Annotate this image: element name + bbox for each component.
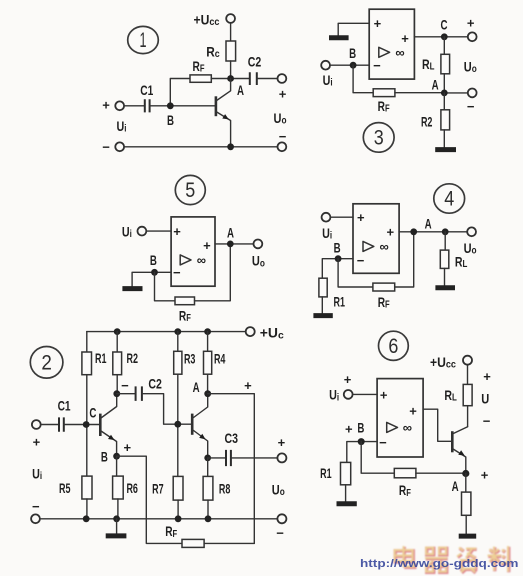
svg-text:+: + — [401, 31, 409, 46]
wire A to RL — [444, 232, 446, 250]
svg-text:B: B — [334, 239, 341, 255]
circuit badge 2 — [30, 347, 63, 379]
svg-text:∞: ∞ — [395, 45, 404, 60]
svg-text:RF: RF — [378, 294, 390, 311]
svg-text:R5: R5 — [59, 480, 71, 496]
terminal output top — [278, 74, 287, 83]
resistor R7 — [152, 476, 183, 500]
resistor R1 — [82, 350, 107, 375]
transistor Q2 collector — [192, 394, 208, 419]
wire Ucc to RL — [467, 365, 469, 385]
wire RF to node A — [416, 472, 466, 474]
svg-text:C2: C2 — [248, 54, 262, 70]
node B — [349, 45, 356, 68]
junction rail-R7 — [175, 515, 182, 522]
wire R5 to rail — [86, 499, 88, 519]
svg-text:R8: R8 — [219, 480, 231, 496]
wire rail to R3 — [177, 332, 179, 352]
svg-text:+: + — [409, 404, 417, 419]
node A — [432, 77, 448, 97]
transistor Q2 base bar — [191, 414, 194, 435]
wire C2 to base of Q2 — [142, 394, 192, 425]
svg-text:+Uc: +Uc — [260, 325, 284, 342]
wire A to R2 — [465, 474, 467, 493]
svg-text:B: B — [150, 252, 157, 268]
wire RF to output branch — [204, 542, 254, 544]
resistor RF — [373, 89, 395, 115]
svg-text:R1: R1 — [334, 294, 346, 310]
svg-text:A: A — [432, 77, 439, 93]
wire inverting input to B to ground — [132, 272, 171, 286]
svg-text:R4: R4 — [214, 351, 226, 367]
svg-text:+: + — [481, 468, 489, 483]
terminal input top — [32, 420, 41, 429]
wire output to terminal — [399, 231, 467, 233]
resistor R8 — [203, 476, 230, 500]
wire A to R2 — [443, 93, 445, 110]
resistor R2 — [113, 350, 138, 375]
ground (below R1) — [337, 501, 357, 506]
svg-text:+: + — [124, 440, 132, 455]
node B — [357, 419, 364, 445]
capacitor C1 — [140, 82, 153, 112]
wire B down to RF — [353, 65, 373, 93]
transistor Q1 base bar — [215, 96, 218, 116]
wire output to base of Q — [423, 409, 451, 441]
watermark underline — [393, 572, 508, 574]
wire junction to C2 — [117, 393, 136, 395]
node A — [227, 225, 234, 248]
wire bottom rail — [40, 518, 278, 520]
svg-text:C1: C1 — [140, 82, 153, 98]
wire Ui to + input — [353, 393, 378, 395]
svg-text:+Ucc: +Ucc — [430, 354, 456, 371]
capacitor C2 — [136, 376, 162, 401]
wire node A to C2 — [231, 78, 250, 80]
terminal input bottom — [115, 142, 124, 151]
svg-text:3: 3 — [374, 127, 384, 150]
node B — [334, 239, 342, 262]
resistor RL — [444, 384, 472, 405]
wire node A right and down to RF — [208, 394, 255, 544]
node B — [167, 102, 174, 127]
svg-text:+Ucc: +Ucc — [194, 12, 220, 29]
resistor R4 — [204, 351, 226, 375]
wire B down to RF — [155, 272, 176, 301]
op-amp U4 triangle — [363, 241, 374, 251]
ground (below R2) — [459, 534, 477, 539]
node A — [425, 215, 449, 235]
junction rail-R6 — [113, 515, 120, 522]
wire C1 to base of Q1 — [64, 424, 101, 426]
node A — [227, 75, 244, 98]
svg-text:−: − — [357, 253, 365, 268]
wire +Uc top rail — [87, 331, 246, 333]
wire C to RL — [443, 37, 445, 55]
transistor Q1 collector — [216, 79, 231, 102]
terminal Ui — [322, 213, 331, 222]
svg-text:+: + — [374, 16, 382, 31]
svg-text:−: − — [102, 140, 110, 155]
svg-text:−: − — [379, 435, 387, 450]
svg-text:+: + — [357, 210, 365, 225]
svg-text:−: − — [373, 58, 381, 73]
ground (below R1) — [313, 313, 332, 318]
svg-text:R7: R7 — [152, 480, 164, 496]
svg-text:C1: C1 — [58, 398, 71, 414]
resistor R5 — [59, 476, 92, 499]
transistor Q1 collector — [100, 394, 116, 419]
wire Ui to + input — [146, 230, 171, 232]
transistor Q2 emitter — [192, 430, 208, 458]
svg-text:+: + — [467, 15, 475, 30]
svg-text:+: + — [173, 224, 181, 239]
transistor Q1 emitter — [216, 112, 231, 147]
svg-text:RL: RL — [422, 56, 435, 73]
wire rail to R4 — [207, 332, 209, 352]
terminal +Ucc — [226, 14, 235, 23]
transistor Q base bar — [451, 431, 454, 452]
svg-text:RF: RF — [179, 308, 191, 325]
terminal +Uc — [246, 327, 255, 336]
wire emitter node to R8 — [207, 458, 209, 477]
svg-text:A: A — [193, 379, 200, 395]
svg-text:Ui: Ui — [117, 118, 127, 135]
wire R1 to ground — [321, 297, 323, 313]
capacitor C1 — [58, 398, 71, 432]
svg-text:B: B — [357, 419, 364, 435]
svg-text:+: + — [344, 372, 352, 387]
ground (circuit 3 input) — [329, 35, 349, 40]
terminal Ui — [344, 390, 353, 399]
svg-text:−: − — [276, 526, 284, 541]
wire R3 down through base junction to R7 — [177, 374, 179, 476]
terminal Ui — [321, 61, 330, 70]
svg-text:∞: ∞ — [403, 420, 412, 435]
svg-text:+: + — [244, 378, 252, 393]
svg-text:RF: RF — [193, 58, 205, 75]
wire node A to terminal - — [444, 92, 468, 94]
junction rail-R3 — [174, 328, 181, 335]
svg-text:−: − — [279, 129, 287, 144]
svg-text:http://www.go-gddq.com: http://www.go-gddq.com — [360, 558, 519, 570]
wire Ucc terminal to Rc — [230, 23, 232, 41]
junction rail-R8 — [205, 515, 212, 522]
svg-text:+: + — [345, 422, 353, 437]
svg-text:C2: C2 — [148, 376, 162, 392]
svg-text:+: + — [483, 369, 491, 384]
resistor Rc — [206, 41, 235, 61]
svg-text:Ui: Ui — [322, 225, 332, 242]
svg-text:+: + — [279, 86, 287, 101]
wire B down to R6 — [116, 456, 118, 476]
svg-text:−: − — [467, 99, 475, 114]
wire Ui to + input — [330, 216, 353, 218]
terminal Ui — [138, 227, 147, 236]
junction rail-R5 — [83, 515, 90, 522]
wire rail to R2 — [116, 332, 118, 352]
terminal +Ucc — [463, 356, 472, 365]
capacitor C2 — [248, 54, 262, 86]
svg-text:6: 6 — [388, 335, 398, 358]
svg-text:B: B — [349, 45, 356, 61]
svg-text:−: − — [173, 265, 181, 280]
wire R4 down to node A — [207, 374, 209, 394]
wire RF to node A — [211, 78, 230, 80]
wire input to C1 — [124, 105, 145, 107]
svg-text:R1: R1 — [95, 350, 107, 366]
svg-text:C: C — [441, 17, 448, 33]
svg-text:Ui: Ui — [329, 387, 339, 404]
wire rail to ground — [116, 519, 118, 534]
svg-text:R1: R1 — [320, 465, 332, 481]
svg-text:+: + — [102, 97, 110, 112]
svg-text:R2: R2 — [421, 113, 433, 129]
svg-text:+: + — [278, 435, 286, 450]
resistor RL — [422, 54, 450, 74]
resistor R2 (unlabeled) — [462, 492, 471, 515]
wire R2 down to collector junction — [116, 375, 118, 394]
terminal output + — [468, 32, 477, 41]
junction output-RF — [410, 228, 417, 235]
svg-text:Uo: Uo — [464, 240, 477, 257]
svg-text:R2: R2 — [127, 350, 139, 366]
wire RF up to node A — [195, 244, 231, 301]
svg-text:+: + — [387, 225, 395, 240]
svg-text:RF: RF — [165, 523, 177, 540]
wire B down to RF — [361, 442, 394, 474]
svg-text:Ui: Ui — [323, 72, 333, 89]
wire RF up to output node — [395, 232, 414, 287]
circuit badge 5 — [175, 175, 205, 204]
svg-text:B: B — [167, 112, 174, 128]
node C — [441, 17, 448, 40]
svg-text:RL: RL — [444, 387, 457, 404]
resistor R6 — [113, 476, 138, 499]
junction rail-R4 — [204, 328, 211, 335]
op-amp U5 triangle — [180, 255, 191, 265]
wire C2 to output terminal — [257, 78, 278, 80]
svg-text:RF: RF — [378, 98, 390, 115]
wire inverting input to R1 — [322, 259, 353, 279]
ground (below RL) — [435, 285, 455, 290]
junction emitter-rail — [227, 143, 234, 150]
svg-text:+: + — [203, 238, 211, 253]
transistor Q1 emitter — [100, 431, 116, 457]
op-amp U3 triangle — [379, 47, 390, 57]
svg-text:2: 2 — [41, 352, 52, 375]
wire bottom rail — [124, 146, 277, 148]
wire C3 to output terminal — [231, 457, 278, 459]
resistor RF (feedback) — [165, 523, 204, 547]
svg-text:∞: ∞ — [197, 253, 206, 268]
op-amp U5 box — [171, 217, 215, 286]
svg-text:Rc: Rc — [206, 44, 220, 61]
wire R1 to ground — [345, 485, 347, 502]
svg-text:+: + — [33, 434, 41, 449]
ground (below R2) — [435, 147, 456, 152]
svg-text:A: A — [237, 82, 244, 98]
svg-text:−: − — [121, 378, 129, 393]
resistor R3 — [174, 351, 196, 375]
resistor R2 — [421, 110, 450, 130]
svg-text:Uo: Uo — [464, 58, 477, 75]
svg-text:A: A — [227, 225, 234, 241]
wire Rc to node A — [230, 61, 232, 79]
svg-text:R3: R3 — [184, 351, 196, 367]
svg-text:A: A — [425, 215, 432, 231]
wire node B up and to RF — [170, 79, 190, 106]
ground (circuit 5) — [122, 286, 142, 291]
circuit badge 4 — [434, 184, 465, 213]
svg-text:4: 4 — [444, 188, 454, 211]
wire B down to RF — [338, 259, 373, 287]
op-amp U4 box — [353, 204, 399, 273]
wire B right and down to RF — [117, 456, 182, 543]
node B — [150, 252, 158, 276]
resistor RF (R-F feedback) — [190, 58, 211, 82]
circuit badge 3 — [363, 123, 394, 153]
wire output to terminal — [215, 243, 254, 245]
wire RL to ground — [444, 268, 446, 285]
svg-text:R6: R6 — [126, 480, 138, 496]
resistor RF — [175, 297, 195, 324]
resistor R1 — [319, 278, 345, 309]
terminal input bottom — [31, 514, 40, 523]
wire Ui to inverting input — [330, 64, 369, 66]
node C — [83, 404, 97, 428]
terminal output - — [468, 89, 477, 98]
svg-text:A: A — [452, 478, 459, 494]
op-amp U6 box — [377, 379, 423, 457]
svg-text:Ui: Ui — [32, 466, 42, 483]
resistor RF — [373, 283, 395, 311]
wire R7 to rail — [177, 500, 179, 519]
capacitor C3 — [225, 430, 239, 466]
terminal input top — [115, 101, 124, 110]
svg-text:Ui: Ui — [122, 223, 132, 240]
terminal Uo — [467, 227, 476, 236]
svg-text:B: B — [101, 449, 108, 465]
svg-text:∞: ∞ — [379, 239, 388, 254]
wire input to C1 — [41, 424, 59, 426]
node B of Q1 — [101, 449, 120, 465]
wire RL to collector — [467, 406, 469, 427]
junction rail-R2 — [114, 328, 121, 335]
wire output to terminal + — [414, 36, 467, 38]
svg-text:+: + — [380, 388, 388, 403]
svg-text:5: 5 — [185, 179, 195, 202]
watermark chinese characters (drawn) — [395, 546, 512, 573]
wire inverting input to R1 — [347, 442, 377, 463]
circuit badge 6 — [379, 331, 409, 360]
svg-text:−: − — [32, 499, 40, 514]
junction collector-R2-C2 — [113, 390, 120, 397]
node A — [193, 379, 212, 397]
wire emitter node to C3 — [208, 457, 226, 459]
wire R2 to ground — [465, 515, 467, 533]
junction base-R3-R7 — [174, 421, 181, 428]
svg-text:U: U — [481, 390, 489, 406]
svg-text:RF: RF — [399, 482, 411, 499]
svg-text:Uo: Uo — [252, 253, 265, 270]
wire rail to R1 — [86, 332, 88, 352]
transistor Q emitter — [452, 449, 466, 474]
wire R6 to rail — [117, 499, 119, 519]
resistor RF — [394, 468, 416, 498]
op-amp U6 triangle — [387, 422, 398, 432]
terminal Uo — [254, 240, 263, 249]
transistor Q collector — [452, 427, 467, 434]
wire RF to node A — [395, 92, 444, 94]
svg-text:1: 1 — [140, 29, 147, 52]
wire C1 to base of Q1 — [150, 105, 216, 107]
op-amp U3 box — [369, 9, 414, 79]
wire RL to node A — [443, 74, 445, 93]
ground (circuit 2) — [106, 533, 127, 538]
wire R1 down to node C and R5 — [86, 375, 88, 476]
node A — [452, 470, 470, 494]
node emitter Q2 — [204, 455, 211, 462]
resistor RL — [440, 250, 467, 270]
svg-text:Uo: Uo — [274, 110, 287, 127]
svg-text:C3: C3 — [225, 430, 239, 446]
resistor R1 — [320, 462, 351, 484]
circuit badge 1 — [128, 26, 159, 53]
transistor Q1 base bar — [99, 414, 102, 436]
wire noninverting input to ground — [338, 23, 369, 35]
wire R2 to ground — [443, 130, 445, 147]
svg-text:C: C — [89, 404, 96, 420]
terminal output bottom — [278, 142, 287, 151]
svg-text:−: − — [483, 413, 491, 428]
terminal output top — [277, 453, 286, 462]
svg-text:Uo: Uo — [272, 481, 285, 498]
wire R8 to rail — [207, 500, 209, 519]
terminal output bottom — [277, 514, 286, 523]
